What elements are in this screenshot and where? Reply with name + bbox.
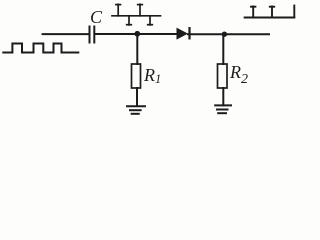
label R1	[144, 65, 161, 87]
resistor R1 body	[132, 64, 141, 88]
label C	[90, 7, 102, 28]
output waveform: positive spikes only	[245, 6, 295, 18]
node waveform: spikes after C (differentiated)	[112, 4, 161, 25]
resistor R2 lead top	[222, 34, 224, 64]
capacitor C right plate	[93, 27, 95, 43]
capacitor C left plate	[89, 27, 91, 43]
resistor R1 lead top	[136, 34, 138, 64]
resistor R2 lead bottom	[222, 88, 224, 105]
wire capacitor to diode	[95, 33, 176, 35]
resistor R2 body	[218, 64, 228, 88]
diode cathode bar	[188, 27, 190, 40]
junction node at diode / R2 / output	[222, 32, 227, 37]
input square-wave signal	[3, 44, 78, 53]
resistor R1 lead bottom	[136, 88, 138, 106]
ground under R1	[127, 106, 145, 114]
wire input to capacitor	[43, 33, 89, 35]
diode D triangle	[177, 28, 189, 40]
wire diode to output end	[188, 33, 269, 35]
label R2	[230, 62, 248, 88]
ground under R2	[215, 105, 231, 113]
junction node at C / R1 / diode	[134, 31, 140, 37]
